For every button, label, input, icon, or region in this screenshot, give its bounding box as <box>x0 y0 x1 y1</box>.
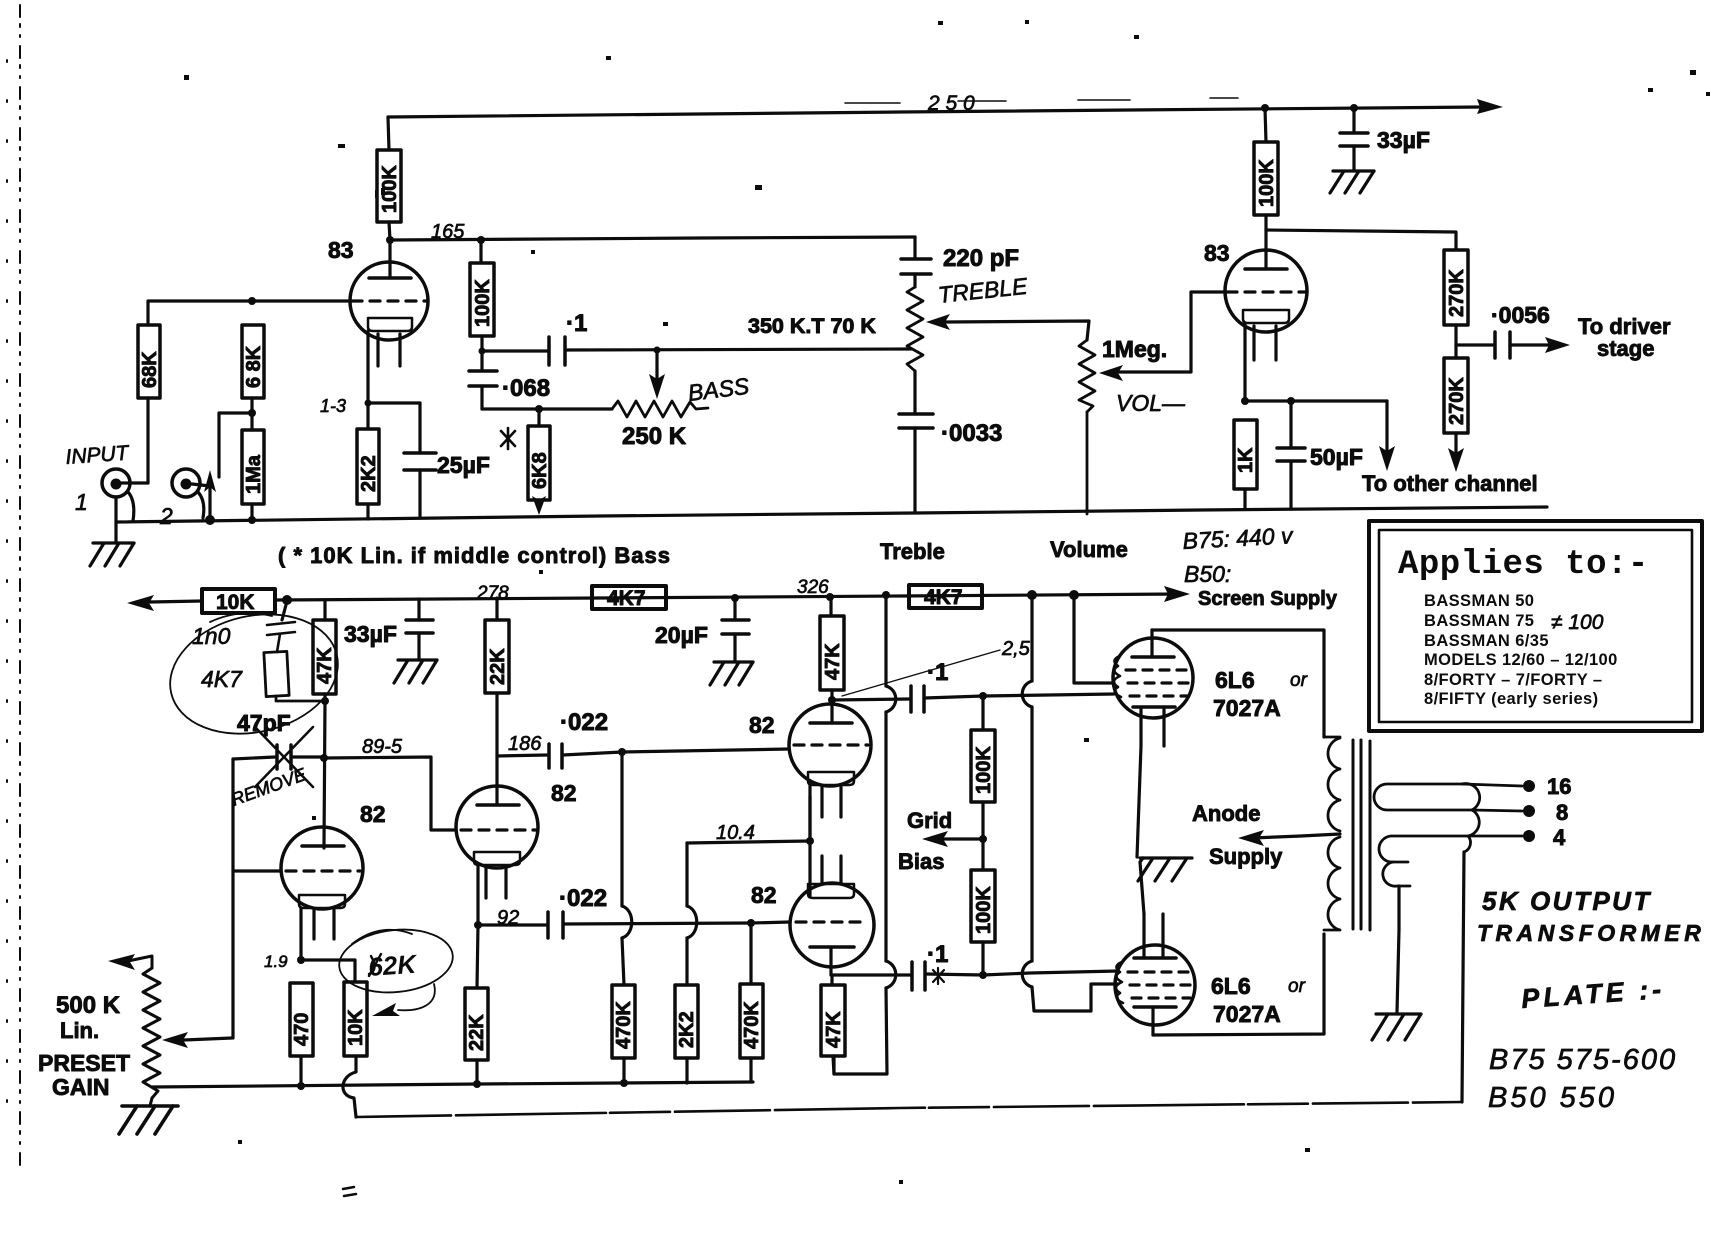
svg-text:82: 82 <box>551 780 577 806</box>
node dot 22K on bus <box>473 1080 481 1088</box>
svg-text:GAIN: GAIN <box>52 1074 110 1100</box>
svg-text:25µF: 25µF <box>437 452 490 478</box>
node dot 100K chain bottom <box>979 971 987 979</box>
arrowhead preset gain wiper <box>162 1032 188 1048</box>
capacitor C .1 (slope cap) <box>482 337 911 365</box>
label 62K handwritten <box>367 949 419 982</box>
capacitor C 50uF (cathode bypass) <box>1277 401 1305 508</box>
svg-text:Volume: Volume <box>1050 537 1128 562</box>
transformer T1 core laminations <box>1353 740 1370 930</box>
tube V4 82 triode (second stage PA) <box>456 756 538 925</box>
svg-text:2,5: 2,5 <box>1001 638 1031 660</box>
ground symbol 33uF screen <box>394 660 437 683</box>
svg-text:278: 278 <box>476 583 509 604</box>
capacitor C .0056 (to driver) <box>1456 332 1552 358</box>
arrowhead 62K balloon pointer <box>372 1003 400 1016</box>
svg-text:82: 82 <box>751 882 777 908</box>
tube V6 6L6 upper <box>1113 630 1193 857</box>
node dot line C <box>1069 590 1079 600</box>
tube V2 83 triode (second stage) <box>1225 230 1307 401</box>
label 6L6 or upper <box>1213 667 1308 721</box>
svg-text:8/FIFTY (early series): 8/FIFTY (early series) <box>1424 690 1599 708</box>
svg-text:4K7: 4K7 <box>201 666 243 692</box>
node dot grid bias tap <box>979 835 987 843</box>
wire to V5b grid <box>751 922 790 923</box>
svg-text:1.9: 1.9 <box>264 952 288 971</box>
svg-text:5K OUTPUT: 5K OUTPUT <box>1482 886 1652 916</box>
label 6L6 or lower <box>1211 973 1306 1027</box>
svg-text:BASSMAN 6/35: BASSMAN 6/35 <box>1424 632 1549 650</box>
svg-text:1Ma: 1Ma <box>243 454 265 494</box>
label Anode Supply <box>1192 801 1283 869</box>
resistor R11 1K (V2 cathode) <box>1234 420 1257 509</box>
svg-text:4K7: 4K7 <box>607 587 646 610</box>
node dot 92 <box>474 921 482 929</box>
wire secondary tap 4 <box>1468 835 1522 838</box>
svg-text:47K: 47K <box>314 647 336 684</box>
resistor R1 100K (V1 anode load) <box>377 150 401 240</box>
wire feedback bottom line <box>356 1102 1462 1117</box>
svg-text:22K: 22K <box>487 648 509 685</box>
svg-text:8/FORTY – 7/FORTY –: 8/FORTY – 7/FORTY – <box>1424 671 1602 689</box>
label 5K output transformer handwritten <box>1477 886 1705 946</box>
svg-text:6K8: 6K8 <box>529 452 551 489</box>
tube V5a 82 phase inverter upper <box>789 700 871 841</box>
svg-text:·068: ·068 <box>502 375 550 402</box>
svg-text:47K: 47K <box>823 1011 845 1048</box>
node dot bass tap <box>654 347 661 354</box>
svg-text:or: or <box>1288 976 1306 997</box>
wire balloon branch down <box>282 601 287 620</box>
svg-text:B50:: B50: <box>1184 561 1231 587</box>
ground symbol below jack 1 <box>90 543 134 566</box>
node dot HT/R8 <box>1261 104 1269 112</box>
resistor R4 68K <box>242 325 265 413</box>
bottom centre smudge mark <box>343 1187 356 1196</box>
box Applies to inner frame <box>1379 530 1692 722</box>
svg-text:270K: 270K <box>1446 269 1468 317</box>
svg-text:8: 8 <box>1556 800 1568 825</box>
svg-text:220 pF: 220 pF <box>943 245 1019 272</box>
wire HT supply top line 250V <box>388 98 1481 117</box>
label .1 lower with asterisk <box>927 941 948 984</box>
wire 89-5 direct coupling to V4 grid <box>324 757 456 830</box>
svg-text:MODELS 12/60 – 12/100: MODELS 12/60 – 12/100 <box>1424 651 1618 669</box>
wire 165 anode node line <box>390 237 915 240</box>
wire secondary tap 16 <box>1462 784 1522 786</box>
wire anode supply centre tap <box>1252 834 1340 838</box>
svg-text:10K: 10K <box>216 591 255 614</box>
svg-text:6 8K: 6 8K <box>243 345 265 388</box>
wire upper 6L6 anode to primary top <box>1152 630 1324 737</box>
svg-text:B75 575-600: B75 575-600 <box>1489 1044 1677 1076</box>
wire grid bias stub <box>944 837 983 840</box>
wire 10.4 to tail resistor (hop over 92 wire) <box>687 841 810 985</box>
svg-text:4: 4 <box>1553 825 1566 850</box>
svg-text:2K2: 2K2 <box>358 455 380 492</box>
capacitor C .022 coupling 2 <box>478 912 751 938</box>
label model list <box>1424 592 1618 708</box>
svg-text:89-5: 89-5 <box>362 736 403 758</box>
svg-text:·1: ·1 <box>927 941 948 968</box>
balloon ellipse 62K note <box>336 924 456 1010</box>
capacitor C 220pF (treble) <box>901 237 931 287</box>
node dot 6K8 top <box>535 405 543 413</box>
resistor R8 100K (V2 anode load) <box>1254 108 1278 230</box>
resistor R20 22K (V4 cathode load) <box>465 925 488 1084</box>
capacitor C 25uF (cathode bypass) <box>368 403 436 518</box>
tube V7 6L6 lower (inverted) <box>1115 858 1195 1035</box>
wire cathode link V5a V5b <box>808 796 811 890</box>
svg-text:·0056: ·0056 <box>1491 302 1550 328</box>
resistor R12 10K boxed <box>202 589 275 614</box>
wire 4 ohm tap feedback drop <box>1462 852 1464 1102</box>
svg-text:470K: 470K <box>741 1001 763 1049</box>
node dot after 10K <box>282 595 292 605</box>
balloon ellipse around proposed network <box>158 598 350 749</box>
svg-text:6L6: 6L6 <box>1215 667 1255 693</box>
arrowhead bass wiper <box>649 374 665 399</box>
svg-text:186: 186 <box>508 733 542 755</box>
page border dashed line <box>7 5 20 1165</box>
arrowhead cathode to other channel <box>1379 446 1395 471</box>
arrowhead screen line left <box>127 595 154 611</box>
arrowhead jack2 switch contact <box>204 470 216 492</box>
node dot anode/47pF junction <box>320 754 328 762</box>
arrowhead HT line right <box>1477 99 1503 114</box>
resistor R9 270K <box>1444 250 1468 345</box>
svg-text:4K7: 4K7 <box>924 586 963 609</box>
wire down arrow to other channel <box>1385 401 1388 455</box>
wire V2 anode to 270K divider <box>1266 230 1456 250</box>
node dot 33uF top <box>1350 104 1358 112</box>
wire screen supply line <box>150 601 202 602</box>
arrowhead grid bias <box>922 831 948 847</box>
wire line A feed to lower 47K (with hops) <box>834 595 896 1074</box>
wire V2 cathode node <box>1245 399 1387 402</box>
node dot V5a anode <box>828 696 836 704</box>
svg-text:·1: ·1 <box>566 310 587 337</box>
svg-text:or: or <box>1290 670 1308 691</box>
svg-text:68K: 68K <box>139 351 161 388</box>
svg-text:Applies to:-: Applies to:- <box>1398 546 1649 584</box>
potentiometer 250K BASS <box>612 401 708 417</box>
capacitor C 47pF removed (crossed out) <box>233 727 324 787</box>
svg-text:500 K: 500 K <box>56 992 121 1019</box>
resistor R2 100K (slope) <box>470 263 494 351</box>
svg-text:INPUT: INPUT <box>65 441 132 468</box>
svg-text:10K: 10K <box>345 1009 367 1046</box>
node dot 47K screen tap <box>826 593 834 601</box>
potentiometer 1Meg VOL <box>1079 340 1095 514</box>
wire V5a grid line <box>622 749 789 752</box>
node dot 470 on bus <box>297 1082 305 1090</box>
resistor R15 22K (V4 cathode follower) <box>485 598 509 756</box>
label To driver stage <box>1578 314 1671 361</box>
jack J2 input 2 <box>172 469 210 520</box>
wire lower 6L6 anode to primary bottom <box>1153 934 1324 1035</box>
svg-text:470K: 470K <box>613 1001 635 1049</box>
wire wiper to riser <box>184 1038 232 1040</box>
wire 1.9 node to 10K <box>301 960 355 982</box>
svg-text:100K: 100K <box>472 279 494 327</box>
svg-text:·022: ·022 <box>559 885 607 912</box>
svg-text:1: 1 <box>75 489 88 515</box>
svg-text:326: 326 <box>797 577 829 598</box>
arrowhead to driver stage <box>1545 337 1570 353</box>
svg-text:47K: 47K <box>822 643 844 680</box>
ground symbol 33uF <box>1330 171 1374 193</box>
potentiometer TREBLE 350K/70K <box>907 287 923 371</box>
wire volume wiper to V2 grid <box>1119 292 1225 372</box>
svg-text:100K: 100K <box>1256 159 1278 207</box>
wire treble wiper to volume top <box>946 321 1089 340</box>
wire V1 grid line <box>148 301 350 325</box>
resistor R19 4K7 boxed (screen dropper 2) <box>909 585 982 609</box>
node dot 1.9 cathode junction <box>297 956 305 964</box>
node dot 20uF <box>731 594 739 602</box>
svg-text:Treble: Treble <box>880 539 945 564</box>
node dot 10.4 tap <box>806 837 814 845</box>
svg-text:7027A: 7027A <box>1213 695 1281 721</box>
svg-text:2 5 0: 2 5 0 <box>927 92 975 115</box>
svg-text:·022: ·022 <box>560 709 608 736</box>
wire line C feed to upper 6L6 screen <box>1074 595 1114 683</box>
svg-text:22K: 22K <box>466 1014 488 1051</box>
svg-text:1Meg.: 1Meg. <box>1102 336 1167 362</box>
svg-text:50µF: 50µF <box>1310 444 1363 470</box>
wire jack1 down to ground <box>114 497 117 543</box>
node dot 50uF top <box>1287 397 1295 405</box>
svg-text:20µF: 20µF <box>655 622 708 648</box>
node dot tap 8 <box>1523 805 1535 817</box>
node dot V5a grid <box>618 748 626 756</box>
svg-text:To other channel: To other channel <box>1362 471 1538 496</box>
resistor R24 100K (grid leak upper) <box>971 696 995 839</box>
tube V1 83 triode (input stage) <box>350 240 428 403</box>
leader line node 215 <box>842 650 1000 696</box>
resistor R21 470K (V5b grid leak) <box>740 923 763 1082</box>
wire screen line across <box>275 594 1180 600</box>
resistor R22 2K2 (PI tail) <box>675 985 698 1083</box>
svg-text:83: 83 <box>328 237 354 263</box>
resistor R3 68K (input grid stopper) <box>138 325 161 483</box>
wire 47K to V3 anode <box>324 701 325 846</box>
capacitor C 33uF (HT filter) <box>1340 108 1368 171</box>
arrowhead anode supply <box>1238 830 1264 846</box>
resistor R14 47K (V3 anode load) <box>313 601 336 701</box>
node dot line B <box>1027 590 1037 600</box>
svg-text:6L6: 6L6 <box>1211 973 1251 999</box>
wire bass wiper drop <box>655 350 658 380</box>
svg-text:VOL—: VOL— <box>1116 390 1186 416</box>
box Applies to outer frame <box>1369 521 1702 731</box>
resistor R7 6K8 (alt middle) <box>528 409 551 508</box>
svg-text:Bias: Bias <box>898 849 944 874</box>
wire 10K bottom crossover loop to feedback line <box>343 1056 356 1117</box>
wire secondary tap 8 <box>1472 810 1522 811</box>
potentiometer 500K preset gain <box>128 956 160 1106</box>
node dot jack2 sleeve on bus <box>205 515 215 525</box>
svg-text:47pF: 47pF <box>237 710 291 736</box>
resistor R26 470 (V3 cathode) <box>290 983 313 1086</box>
resistor R16 470K (V5a grid leak) <box>612 985 635 1083</box>
svg-text:1-3: 1-3 <box>320 396 346 416</box>
resistor R13 4K7 proposed (hand drawn) <box>264 651 325 701</box>
label Grid Bias <box>898 808 952 874</box>
svg-text:2K2: 2K2 <box>676 1011 698 1048</box>
ground symbol 20uF <box>710 662 753 685</box>
arrowhead volume wiper <box>1099 365 1123 381</box>
tube V3 82 triode (first stage PA) <box>281 827 363 960</box>
wire HT corner down to R1 <box>388 117 389 150</box>
node dot .1 cap left <box>479 348 486 355</box>
node dot line A <box>882 591 890 599</box>
jack J1 input 1 <box>102 469 148 521</box>
svg-text:stage: stage <box>1597 336 1654 361</box>
node dot 47K bottom <box>321 697 329 705</box>
svg-text:PRESET: PRESET <box>38 1050 130 1076</box>
svg-text:2: 2 <box>159 503 173 529</box>
node dot 1M top <box>248 409 256 417</box>
node dot 1M bottom on bus <box>248 516 256 524</box>
node junction dot 165 <box>386 236 394 244</box>
svg-text:B50 550: B50 550 <box>1488 1082 1617 1114</box>
svg-text:33µF: 33µF <box>1377 127 1430 153</box>
node dot grid/68K junction <box>248 297 256 305</box>
arrowhead 6K8 to bus <box>532 496 546 515</box>
node dot V2 cathode <box>1241 397 1249 405</box>
svg-text:16: 16 <box>1547 774 1571 799</box>
wire jog to jack 2 switch <box>219 413 252 477</box>
svg-text:Supply: Supply <box>1209 844 1283 869</box>
svg-text:Lin.: Lin. <box>60 1018 99 1043</box>
svg-text:7027A: 7027A <box>1213 1001 1281 1027</box>
svg-text:Anode: Anode <box>1192 801 1260 826</box>
wire riser wiper to grid to 47pF corner <box>231 759 234 1038</box>
capacitor C 33uF screen filter <box>406 599 433 660</box>
capacitor C .1 coupling lower 6L6 <box>831 962 1118 990</box>
resistor R18 4K7 boxed (screen dropper) <box>592 586 666 610</box>
capacitor C 20uF screen filter <box>722 598 749 662</box>
svg-text:83: 83 <box>1204 240 1230 266</box>
svg-text:Screen Supply: Screen Supply <box>1198 588 1338 610</box>
resistor R5 1M (grid leak) <box>242 413 265 521</box>
arrowhead treble wiper <box>926 314 950 330</box>
capacitor C .022 coupling 1 <box>497 744 622 768</box>
node dot 470K2 top <box>747 919 755 927</box>
wire line B feed to lower 6L6 screen (with hops) <box>1022 595 1118 1011</box>
resistor R27 10K (feedback) <box>344 982 367 1056</box>
node dot tap 4 <box>1523 830 1535 842</box>
svg-text:165: 165 <box>431 221 465 243</box>
svg-text:TRANSFORMER: TRANSFORMER <box>1477 920 1705 946</box>
wire grid leak drop (hop over 92 wire) <box>622 752 632 985</box>
svg-text:82: 82 <box>360 801 386 827</box>
capacitor C .0033 <box>899 371 933 513</box>
svg-text:10.4: 10.4 <box>716 822 755 844</box>
svg-text:250 K: 250 K <box>622 423 687 450</box>
wire down to R2 <box>479 240 482 263</box>
node junction dot R2 top <box>477 236 485 244</box>
svg-text:Grid: Grid <box>907 808 952 833</box>
resistor R17 47K (V5a anode load) <box>820 597 844 700</box>
arrowhead screen supply right <box>1164 586 1190 602</box>
capacitor C .068 (bass cap) <box>469 351 612 409</box>
svg-text:100K: 100K <box>973 886 995 934</box>
svg-text:·0033: ·0033 <box>941 420 1002 447</box>
ground symbol secondary <box>1372 1014 1421 1040</box>
resistor R10 270K <box>1444 345 1468 458</box>
arrowhead preset gain top <box>108 954 135 970</box>
node dot 470K on bus <box>620 1079 628 1087</box>
capacitor C .1 coupling upper 6L6 <box>832 686 1114 712</box>
transformer T1 secondary winding <box>1374 784 1480 887</box>
svg-text:1K: 1K <box>1235 447 1257 473</box>
svg-text:470: 470 <box>291 1013 313 1046</box>
svg-text:100K: 100K <box>379 165 401 213</box>
node 1-3 cathode junction <box>365 400 372 407</box>
ground symbol preset gain <box>119 1106 178 1134</box>
svg-text:1n0: 1n0 <box>192 623 231 649</box>
resistor R25 100K (grid leak lower) <box>971 839 995 975</box>
wire V3 grid stub <box>233 869 281 872</box>
wire main earth bus PA <box>152 1082 753 1087</box>
wire secondary bottom to ground <box>1397 886 1399 1012</box>
resistor R23 47K (V5b anode load) <box>821 975 845 1074</box>
svg-text:≠ 100: ≠ 100 <box>1551 611 1604 634</box>
resistor R6 2K2 (V1 cathode) <box>357 403 380 519</box>
transformer T1 primary winding <box>1324 737 1340 930</box>
arrowhead 270K to other channel <box>1448 448 1464 472</box>
ground symbol 6L6 cathodes <box>1138 858 1192 881</box>
svg-text:( * 10K Lin. if middle contro: ( * 10K Lin. if middle control) Bass <box>278 543 671 568</box>
svg-text:BASSMAN 50: BASSMAN 50 <box>1424 592 1534 610</box>
svg-text:33µF: 33µF <box>344 621 397 647</box>
capacitor C 1n0 proposed (hand drawn) <box>267 622 295 652</box>
svg-text:·1: ·1 <box>927 659 948 686</box>
svg-text:270K: 270K <box>1446 377 1468 425</box>
svg-text:100K: 100K <box>973 746 995 794</box>
asterisk 6K8 <box>501 428 515 449</box>
wire ground bus (first stage) <box>116 507 1547 522</box>
node dot tap 16 <box>1523 780 1535 792</box>
svg-text:BASSMAN 75: BASSMAN 75 <box>1424 612 1534 630</box>
svg-text:350 K.T 70 K: 350 K.T 70 K <box>748 314 876 338</box>
tube V5b 82 phase inverter lower (inverted) <box>790 856 874 975</box>
node dot 100K chain top <box>979 692 987 700</box>
svg-text:82: 82 <box>749 712 775 738</box>
